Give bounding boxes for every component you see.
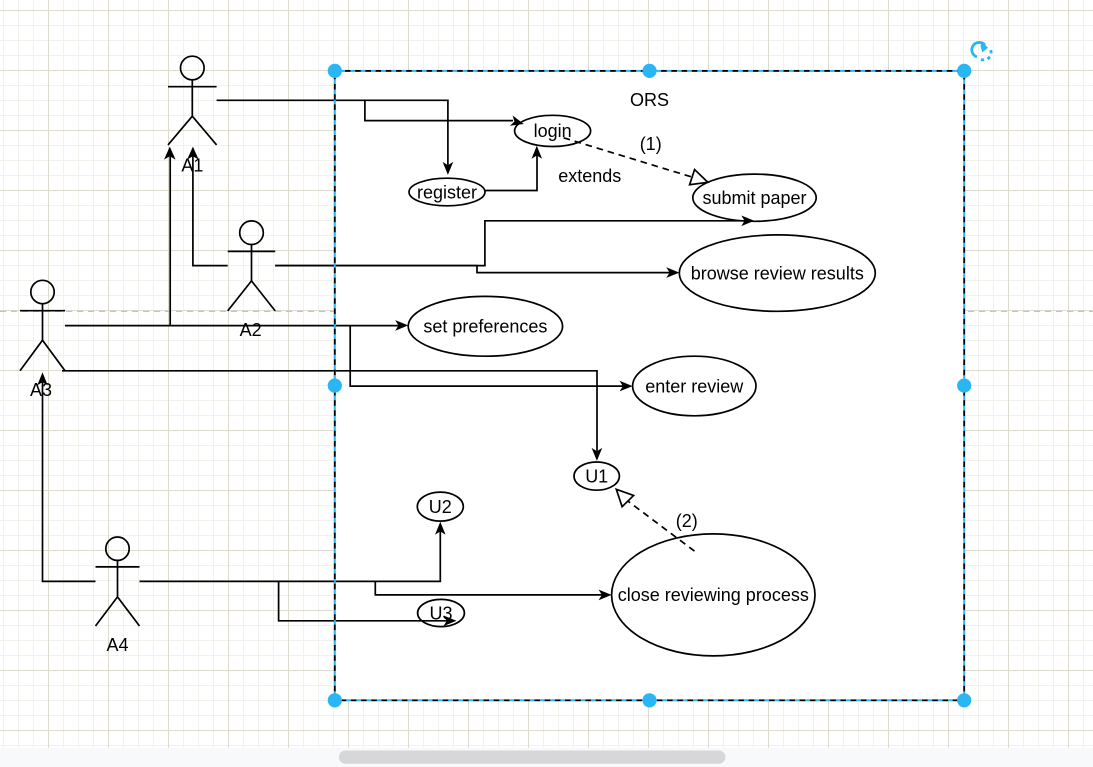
wire A4 to A3 (43, 381, 96, 581)
arrowhead into A3 bottom (37, 372, 48, 385)
wire A3 to set preferences (65, 325, 400, 327)
svg-text:A4: A4 (106, 635, 128, 655)
page break dashed line (0, 310, 1093, 312)
actor A2 (228, 221, 276, 311)
arrowhead into A1 left foot (164, 147, 176, 160)
svg-text:browse review results: browse review results (691, 263, 864, 283)
actor A1 (168, 56, 217, 145)
selection handle mid-left (328, 379, 342, 393)
selection handle top-right (957, 64, 971, 78)
wire A2 to browse review results (275, 266, 671, 273)
use case ellipse browse review results (679, 235, 875, 311)
selection rectangle blue underlay (335, 71, 964, 700)
svg-text:close reviewing process: close reviewing process (618, 585, 809, 605)
arrowhead into register top (443, 162, 454, 175)
scrollbar thumb (339, 751, 726, 764)
svg-text:set preferences: set preferences (423, 317, 547, 337)
wire A1 to register (217, 100, 448, 166)
svg-text:submit paper: submit paper (702, 188, 806, 208)
wire A4 to U2 (140, 531, 441, 582)
selection handle bottom-right (957, 693, 971, 707)
arrowhead into A1 bottom center (187, 147, 199, 160)
selection handle bottom-mid (642, 693, 656, 707)
open triangle at U1 (616, 489, 633, 506)
svg-text:U1: U1 (585, 466, 608, 486)
wire A2 to submit paper (275, 221, 746, 266)
wire A3 to A1 (169, 154, 171, 326)
actor A4 (96, 537, 140, 626)
wire A4 to U3 (279, 581, 448, 620)
svg-text:extends: extends (558, 166, 621, 186)
svg-text:A3: A3 (30, 380, 52, 400)
wire A1 to login (365, 100, 513, 120)
svg-text:A1: A1 (181, 155, 203, 175)
svg-text:(2): (2) (676, 511, 698, 531)
arrowhead into login bottom (532, 146, 543, 159)
actor A3 (20, 280, 65, 371)
container ORS white fill (335, 71, 964, 700)
use case ellipse U3 (418, 599, 465, 626)
selection handle mid-right (957, 379, 971, 393)
arrowhead into login left (510, 116, 524, 126)
rotate handle icon (972, 41, 991, 60)
svg-text:A2: A2 (240, 320, 262, 340)
wire register to login (485, 155, 537, 191)
use case ellipse register (409, 178, 485, 206)
use case ellipse enter review (633, 356, 756, 416)
arrowhead into close reviewing process (599, 590, 612, 601)
selection handle top-left (328, 64, 342, 78)
svg-text:U2: U2 (429, 497, 452, 517)
svg-text:(1): (1) (640, 134, 662, 154)
svg-text:enter review: enter review (645, 376, 744, 396)
selection handle bottom-left (328, 693, 342, 707)
arrowhead into browse review results (666, 267, 679, 278)
use case ellipse login (515, 115, 591, 146)
svg-text:ORS: ORS (630, 90, 669, 110)
use case ellipse set preferences (408, 296, 562, 356)
arrowhead into U3 (444, 616, 457, 627)
wire A2 to A1 (193, 154, 228, 266)
dashed extend edge login to submit paper (564, 138, 693, 177)
use case ellipse submit paper (693, 174, 816, 221)
arrowhead into submit paper (741, 216, 754, 227)
arrowhead into U2 bottom (435, 522, 446, 535)
wire A3 to U1 (62, 371, 597, 453)
wire A4 to close reviewing process (375, 581, 603, 595)
selection handle top-mid (642, 64, 656, 78)
selection rectangle black dashes (335, 71, 964, 700)
svg-text:register: register (417, 182, 477, 202)
wire A3 to enter review (350, 326, 624, 387)
use case ellipse U1 (574, 462, 619, 490)
dashed extend edge close reviewing process to U1 (628, 501, 695, 551)
arrowhead into set preferences (395, 320, 408, 331)
arrowhead into enter review (620, 381, 633, 392)
scrollbar track (0, 748, 1093, 767)
use case ellipse close reviewing process (612, 534, 815, 656)
open triangle at submit paper (690, 170, 708, 185)
use case ellipse U2 (417, 492, 463, 521)
arrowhead into U1 top (592, 448, 603, 461)
